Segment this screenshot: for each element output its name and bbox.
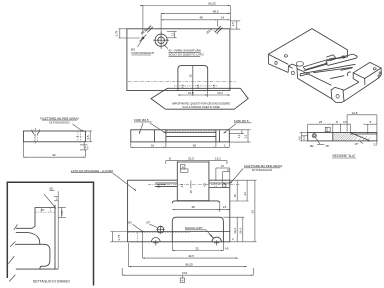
bottom dim 104 — [122, 268, 253, 276]
bottom dim 62 — [23, 142, 85, 158]
svg-text:4,5: 4,5 — [85, 145, 89, 149]
svg-text:14,5: 14,5 — [352, 111, 358, 115]
interior verticals and channel — [154, 130, 219, 142]
left side dim 3,75 — [110, 232, 127, 242]
svg-text:45°: 45° — [326, 144, 330, 148]
iso plate back edges — [268, 29, 347, 59]
centerline dashed bottom view — [148, 184, 240, 186]
hatch sparse on ramp — [353, 135, 371, 141]
svg-text:32: 32 — [195, 247, 199, 251]
svg-text:Ø2: Ø2 — [128, 220, 132, 224]
section outline — [308, 133, 377, 141]
svg-text:0,5: 0,5 — [343, 120, 347, 124]
dimension 14 — [217, 16, 230, 27]
channel interior line — [128, 201, 230, 232]
svg-text:10: 10 — [151, 143, 155, 147]
svg-text:48: 48 — [199, 16, 203, 20]
label FORI Ø2,5 right — [224, 119, 252, 133]
svg-text:4,5: 4,5 — [203, 182, 207, 186]
middle view outline — [131, 130, 230, 142]
svg-text:Ø2: Ø2 — [310, 144, 314, 148]
svg-text:IMPORTANTE: QUESTI FORI DEVONO: IMPORTANTE: QUESTI FORI DEVONO ESSERE — [172, 102, 230, 106]
svg-text:A: A — [181, 279, 183, 283]
detail right verticals — [55, 191, 58, 269]
caption DETTAGLIO — [33, 279, 70, 283]
svg-text:66,25: 66,25 — [185, 263, 193, 267]
slanted slot hole left — [140, 26, 153, 36]
caption SEZIONE A-A — [332, 154, 356, 158]
svg-text:31,5: 31,5 — [188, 157, 194, 161]
bottom view outline — [128, 180, 230, 242]
dimension 3,75 top-left — [114, 29, 140, 38]
right thickness dim — [85, 131, 92, 142]
svg-text:4,5: 4,5 — [225, 247, 229, 251]
right arm slot — [203, 182, 230, 187]
counterbore circle in section — [312, 134, 320, 145]
svg-text:15: 15 — [233, 194, 237, 198]
counterbored hole C1 — [153, 32, 169, 49]
slanted slot hole right — [205, 26, 222, 35]
datum A bottom — [180, 275, 184, 283]
svg-text:48: 48 — [192, 205, 196, 209]
svg-text:13,2: 13,2 — [215, 157, 221, 161]
svg-text:DI FISSAGGIO: DI FISSAGGIO — [49, 120, 70, 124]
svg-text:Ø7: Ø7 — [147, 220, 151, 224]
svg-text:44,5: 44,5 — [188, 254, 194, 258]
svg-text:DETTAGLIO DI SVASSO: DETTAGLIO DI SVASSO — [33, 279, 70, 283]
svg-text:FORI PASSANTI: FORI PASSANTI — [132, 51, 155, 55]
countersink hidden detail — [32, 128, 40, 145]
labels under section — [310, 141, 378, 148]
label FORI Ø2,5 left — [134, 118, 166, 134]
svg-text:66,25: 66,25 — [208, 2, 216, 6]
tolerance box on top — [325, 127, 330, 131]
dim row 23 / 8 / 0,5 — [308, 120, 351, 132]
iso left face — [268, 54, 288, 72]
svg-text:LATO DA SPIANARE - LUCIDO: LATO DA SPIANARE - LUCIDO — [71, 169, 114, 173]
detail profile upper step — [16, 208, 55, 229]
detail dims — [41, 187, 66, 218]
svg-text:23: 23 — [319, 120, 323, 124]
slot opening bottom of top view — [178, 66, 208, 96]
pocket rounded rect — [172, 217, 223, 242]
hidden hole dashes left — [128, 233, 190, 242]
iso right face hole — [342, 56, 345, 58]
svg-text:24,3: 24,3 — [239, 228, 243, 234]
bottom dim 44,5 — [143, 232, 238, 259]
svg-text:RAGGIO 3x45°: RAGGIO 3x45° — [185, 226, 203, 230]
small dims above right arm — [216, 164, 230, 182]
iso channel floor line — [304, 64, 327, 71]
svg-text:0,65: 0,65 — [60, 210, 64, 216]
svg-text:31,5: 31,5 — [188, 91, 194, 95]
svg-text:4,5: 4,5 — [180, 183, 184, 187]
svg-text:SULLA STESSA LINEA D' ASSE: SULLA STESSA LINEA D' ASSE — [182, 105, 220, 109]
dimension 2,5 right — [230, 21, 240, 29]
label LATO DA SPIANARE - LUCIDO — [71, 169, 136, 191]
svg-text:15°: 15° — [355, 142, 359, 146]
label RAGGIO 3x45 — [185, 226, 213, 237]
leader Ø2 left — [128, 220, 143, 232]
svg-text:62: 62 — [52, 153, 56, 157]
hexagon callout — [151, 88, 248, 109]
bottom dim 66,25 — [129, 243, 247, 267]
svg-text:Ø2: Ø2 — [156, 184, 160, 188]
inner vertical dim 15 — [189, 180, 193, 193]
svg-text:13,2: 13,2 — [217, 91, 223, 95]
ramp and floor — [350, 133, 377, 141]
svg-text:DI FISSAGGIO: DI FISSAGGIO — [252, 168, 273, 172]
bottom dim row 10 / 50 / 1 — [131, 142, 230, 148]
svg-text:11: 11 — [170, 33, 174, 36]
bottom dim 32 / 4,5 — [172, 242, 229, 251]
dimension 31,5 / 13,2 above bottom edge — [178, 91, 230, 98]
svg-text:SOLO SU QUESTO LATO: SOLO SU QUESTO LATO — [169, 53, 205, 57]
iso rail — [326, 54, 357, 65]
tab top dims 8 31,5 13,2 — [166, 157, 227, 164]
dim 5 right — [364, 120, 377, 134]
detail frame — [7, 182, 93, 285]
small dim 5 near bar right — [231, 238, 235, 240]
label FILETTARE M2 PER GRANI DI FISSAGGIO — [40, 116, 83, 132]
label 47 FARE SVASATURA — [164, 45, 205, 57]
iso tab front-right — [331, 87, 344, 102]
svg-text:SEZIONE "A-A": SEZIONE "A-A" — [332, 154, 356, 158]
iso top face near edge — [268, 54, 303, 71]
svg-text:19,3: 19,3 — [233, 228, 237, 234]
half hole right with chamfer — [209, 234, 221, 245]
left view outline — [23, 131, 85, 142]
plate outline top view — [127, 29, 230, 91]
right vertical dims 15 19,3 24,3 23 62 — [223, 180, 256, 242]
svg-text:62: 62 — [251, 210, 255, 214]
svg-text:2,5: 2,5 — [231, 22, 235, 27]
half hole left on bar — [152, 238, 161, 246]
svg-text:45°: 45° — [41, 208, 45, 212]
right hidden grub hole — [76, 131, 83, 142]
svg-text:FORI Ø2,5: FORI Ø2,5 — [234, 119, 249, 123]
centerline dashed across plate — [128, 80, 236, 82]
svg-text:15: 15 — [189, 190, 193, 194]
hatch dense — [333, 133, 356, 142]
datum frame A — [181, 165, 189, 173]
svg-text:14: 14 — [221, 16, 225, 20]
left arm slot — [155, 183, 184, 188]
iso channel near wall — [300, 64, 355, 78]
dimension 11 — [167, 31, 177, 37]
iso bottom right edge — [344, 78, 380, 102]
svg-text:48,5: 48,5 — [213, 10, 219, 14]
svg-text:1,5: 1,5 — [237, 134, 241, 138]
label Ø2 FORI PASSANTI — [131, 39, 154, 55]
svg-text:23: 23 — [243, 192, 247, 196]
svg-text:50: 50 — [193, 144, 197, 148]
dimension 48 — [161, 16, 217, 21]
lower right small dim 4,5 — [80, 142, 89, 150]
iso top face holes — [284, 55, 303, 66]
dimension 66,25 — [140, 2, 230, 34]
rotated small labels 4,5 4,5 2,5 — [181, 84, 217, 89]
circle hole left — [156, 226, 164, 234]
svg-text:3,75: 3,75 — [114, 30, 118, 36]
leader Ø7 — [147, 220, 158, 227]
svg-text:104: 104 — [182, 271, 187, 275]
top tab — [177, 162, 209, 201]
iso ramp quad — [326, 55, 336, 61]
svg-text:4,5: 4,5 — [297, 136, 301, 140]
detail profile lower bulge — [15, 233, 58, 270]
left thickness dims — [297, 133, 307, 141]
hidden dashes row — [174, 85, 218, 87]
iso tab front-left — [288, 64, 297, 78]
svg-text:3,75: 3,75 — [117, 234, 121, 240]
iso arm block — [353, 62, 381, 85]
svg-text:1,5: 1,5 — [302, 136, 306, 140]
dim 14,5 — [347, 111, 377, 133]
dimension 48,5 — [161, 10, 230, 34]
label FILETTARE M2 right — [230, 164, 282, 184]
right small dims 1,5 / 2,5 — [229, 130, 250, 142]
break lines — [8, 224, 17, 281]
iso front bottom edge — [298, 72, 332, 99]
svg-text:15: 15 — [189, 74, 193, 78]
iso channel far wall — [303, 58, 333, 70]
small through hole (diamond marker) — [139, 35, 146, 42]
svg-text:2,5: 2,5 — [243, 134, 247, 138]
svg-text:15: 15 — [223, 205, 227, 209]
svg-text:4,5: 4,5 — [86, 135, 90, 140]
svg-text:FORI Ø2,5: FORI Ø2,5 — [134, 118, 149, 122]
